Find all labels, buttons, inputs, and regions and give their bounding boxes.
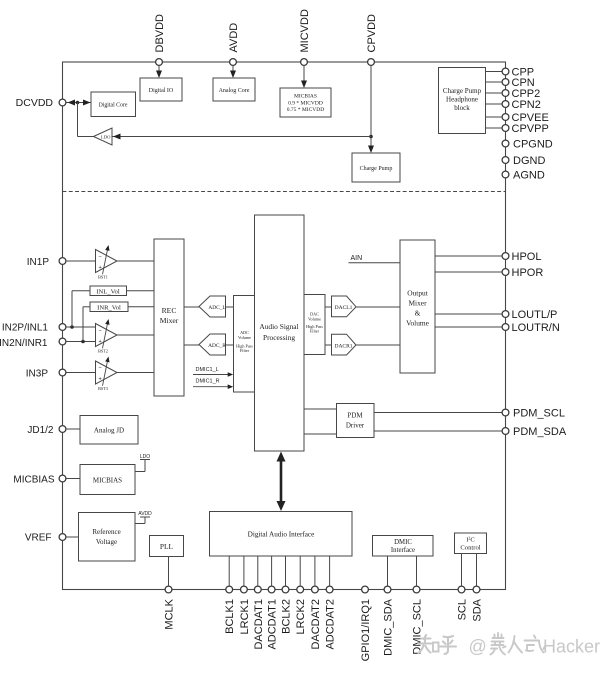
block PDM Driver	[337, 404, 375, 438]
svg-text:LRCK1: LRCK1	[239, 599, 251, 634]
svg-text:Driver: Driver	[346, 422, 365, 430]
svg-text:0.9 * MICVDD: 0.9 * MICVDD	[288, 100, 323, 106]
wire Output Mixer to HPOR	[435, 271, 502, 273]
pin CPVEE	[502, 114, 509, 121]
svg-text:DACR1: DACR1	[334, 343, 352, 349]
svg-text:LOUTR/N: LOUTR/N	[512, 322, 560, 334]
amplifier BST1 boost PGA	[96, 250, 118, 273]
wire REC Mixer to ADC_R	[184, 344, 200, 346]
pin CPP	[502, 68, 509, 75]
svg-text:SCL: SCL	[457, 599, 469, 620]
wire ASP to PDM Driver lower	[304, 433, 337, 435]
svg-text:DACDAT2: DACDAT2	[310, 599, 322, 650]
adc ADC_R	[199, 334, 226, 355]
junction IN2P to INL_Vol	[70, 325, 74, 329]
svg-text:INR_Vol: INR_Vol	[97, 305, 121, 312]
wire DMIC1_L arrow into ADC block	[193, 374, 230, 376]
pin MCLK	[165, 586, 172, 593]
wire IN3P to BST3	[67, 372, 96, 374]
svg-text:DACL1: DACL1	[335, 305, 353, 311]
wire DAC Volume to DACR1	[325, 344, 332, 346]
svg-text:AVDD: AVDD	[228, 23, 240, 53]
wire DAI to BCLK1	[228, 556, 230, 586]
svg-text:I2C: I2C	[466, 535, 475, 544]
svg-text:BCLK2: BCLK2	[281, 599, 293, 634]
svg-text:BST3: BST3	[98, 386, 108, 391]
pin HPOR	[502, 269, 509, 276]
wire Output Mixer to HPOL	[435, 255, 502, 257]
svg-text:IN3P: IN3P	[26, 368, 49, 379]
block MICBIAS	[80, 465, 135, 495]
wire Charge Pump Headphone to CPP	[486, 71, 502, 73]
junction CPVDD-LDO supply	[369, 135, 373, 139]
pin IN2N/INR1	[59, 338, 66, 345]
pin ADCDAT1	[268, 586, 275, 593]
svg-text:HPOL: HPOL	[512, 251, 542, 263]
watermark zhihu text	[419, 635, 457, 654]
svg-text:Filter: Filter	[310, 328, 320, 333]
wire AIN to Output Mixer	[349, 262, 401, 264]
junction IN2N to INR_Vol	[81, 340, 85, 344]
pin BCLK1	[226, 586, 233, 593]
wire DACR1 to Output Mixer	[356, 344, 400, 346]
svg-text:DMIC: DMIC	[394, 539, 412, 546]
svg-text:MICBIAS: MICBIAS	[93, 477, 122, 485]
svg-text:INL_Vol: INL_Vol	[96, 289, 119, 296]
pin CPN2	[502, 101, 509, 108]
wire ASP to PDM Driver upper	[304, 408, 337, 410]
svg-text:Volume: Volume	[406, 319, 430, 328]
block Digital IO	[140, 78, 182, 101]
block INR_Vol	[90, 302, 128, 312]
dac DACR1	[332, 334, 357, 355]
block Charge Pump Headphone block	[439, 68, 486, 134]
svg-text:Digital Audio Interface: Digital Audio Interface	[248, 531, 315, 539]
wire Charge Pump Headphone to CPN	[486, 81, 502, 83]
svg-text:ADCDAT1: ADCDAT1	[267, 599, 279, 650]
pin IN1P	[59, 258, 66, 265]
svg-text:BST2: BST2	[98, 349, 108, 354]
svg-text:LDO: LDO	[140, 454, 150, 460]
svg-text:MICBIAS: MICBIAS	[13, 474, 54, 485]
svg-text:DCVDD: DCVDD	[16, 97, 54, 109]
wire VREF pin to block	[67, 536, 79, 538]
wire ADC_L to ADC Volume	[226, 306, 234, 308]
svg-text:block: block	[454, 104, 470, 112]
svg-text:MCLK: MCLK	[164, 598, 176, 629]
svg-text:JD1/2: JD1/2	[27, 425, 54, 436]
pin PDM_SCL	[502, 409, 509, 416]
wire DMIC Interface to DMIC_SCL	[416, 556, 418, 586]
pin IN2P/INL1	[59, 324, 66, 331]
svg-text:ADCDAT2: ADCDAT2	[325, 599, 337, 650]
pin IN3P	[59, 369, 66, 376]
dashed separator line	[63, 191, 506, 193]
svg-text:Voltage: Voltage	[96, 538, 117, 546]
pin AVDD	[230, 59, 237, 66]
block REC Mixer	[154, 239, 184, 396]
block DAC Volume / High Pass Filter	[304, 295, 325, 355]
wire DBVDD to Digital IO with arrow	[158, 66, 160, 75]
wire Reference Voltage AVDD supply tap	[135, 523, 145, 525]
wire ASP to DAI thick double arrow	[280, 458, 283, 505]
svg-text:ADC_L: ADC_L	[208, 305, 225, 311]
svg-text:Interface: Interface	[391, 547, 415, 554]
svg-text:CPVPP: CPVPP	[512, 123, 549, 135]
wire BST1 to REC Mixer	[117, 260, 154, 262]
wire MICBIAS pin to block	[67, 478, 81, 480]
svg-text:Volume: Volume	[308, 316, 321, 321]
svg-text:DMIC_SCL: DMIC_SCL	[412, 599, 424, 655]
pin DMIC_SDA	[384, 586, 391, 593]
wire DAI to DACDAT2	[314, 556, 316, 586]
pin DCVDD	[59, 99, 66, 106]
svg-text:Control: Control	[460, 545, 480, 552]
wire Charge Pump Headphone to CPVEE	[486, 116, 502, 118]
block I2C Control	[455, 533, 487, 554]
svg-text:−: −	[99, 254, 102, 260]
block DMIC Interface	[373, 536, 434, 557]
svg-text:AGND: AGND	[513, 170, 545, 182]
pin DACDAT2	[312, 586, 319, 593]
block Reference Voltage	[79, 513, 136, 562]
svg-text:DMIC1_R: DMIC1_R	[196, 379, 220, 385]
block Digital Audio Interface	[210, 512, 353, 557]
svg-text:MICBIAS: MICBIAS	[294, 93, 317, 99]
svg-text:−: −	[99, 365, 102, 371]
pin LRCK1	[241, 586, 248, 593]
wire IN1P to BST1	[67, 260, 96, 262]
svg-text:DMIC_SDA: DMIC_SDA	[383, 598, 395, 656]
pin HPOL	[502, 253, 509, 260]
svg-text:Hacker: Hacker	[543, 637, 600, 657]
svg-text:Audio Signal: Audio Signal	[259, 322, 298, 331]
pin LOUTL/P	[502, 311, 509, 318]
svg-text:Filter: Filter	[240, 348, 250, 353]
svg-text:Charge Pump: Charge Pump	[360, 166, 393, 172]
pin MICBIAS	[59, 475, 66, 482]
adc ADC_L	[199, 296, 226, 317]
pin JD1/2	[59, 426, 66, 433]
wire IN2P to BST2 minus input	[67, 326, 96, 328]
wire IN2P up to INL_Vol	[71, 291, 73, 327]
pin LRCK2	[297, 586, 304, 593]
svg-text:LRCK2: LRCK2	[295, 599, 307, 634]
wire ADC_R to ADC Volume	[226, 344, 234, 346]
pin BCLK2	[282, 586, 289, 593]
svg-text:IN2P/INL1: IN2P/INL1	[2, 323, 49, 334]
wire PDM Driver to PDM_SDA	[374, 430, 502, 432]
svg-text:CPN2: CPN2	[512, 99, 541, 111]
wire Charge Pump Headphone to CPP2	[486, 92, 502, 94]
svg-text:Reference: Reference	[92, 528, 120, 536]
wire I2C Control to SCL	[461, 554, 463, 586]
amplifier BST2 boost PGA	[96, 324, 118, 347]
wire Output Mixer to LOUTL/P	[435, 313, 502, 315]
wire MICVDD to MICBIAS regulator with arrow	[303, 66, 305, 85]
dac DACL1	[332, 296, 357, 317]
wire IN2N up to INR_Vol	[82, 307, 84, 342]
pin CPVDD	[368, 59, 375, 66]
wire BST2 to REC Mixer	[117, 334, 154, 336]
pin DBVDD	[156, 59, 163, 66]
svg-text:&: &	[415, 309, 421, 318]
svg-text:CPGND: CPGND	[513, 139, 553, 151]
pin AGND	[502, 171, 509, 178]
svg-text:−: −	[99, 328, 102, 334]
svg-text:DBVDD: DBVDD	[154, 14, 166, 53]
svg-text:SDA: SDA	[472, 598, 484, 621]
block MICBIAS regulator (0.9/0.75 MICVDD)	[280, 88, 331, 117]
pin DGND	[502, 157, 509, 164]
wire MICBIAS LDO supply tap	[135, 471, 145, 473]
svg-text:Output: Output	[407, 289, 428, 298]
wire IN2N to BST2 plus input	[67, 341, 96, 343]
wire DCVDD node down to LDO output	[77, 103, 79, 137]
svg-text:BST1: BST1	[98, 275, 108, 280]
pin VREF	[59, 534, 66, 541]
svg-text:GPIO1/IRQ1: GPIO1/IRQ1	[360, 599, 372, 661]
svg-text:+: +	[99, 339, 102, 345]
pin CPGND	[502, 140, 509, 147]
svg-text:LOUTL/P: LOUTL/P	[512, 309, 558, 321]
block ADC Volume / High Pass Filter	[234, 296, 256, 393]
pin GPIO1/IRQ1	[362, 586, 369, 593]
block PLL	[150, 536, 184, 557]
svg-text:PDM: PDM	[347, 412, 363, 420]
svg-text:Mixer: Mixer	[160, 316, 179, 325]
regulator LDO triangle	[94, 128, 113, 145]
block Analog JD	[80, 416, 138, 445]
wire CPVDD down to Charge Pump with arrow	[370, 66, 372, 150]
wire INR_Vol to REC Mixer	[128, 306, 154, 308]
svg-text:Processing: Processing	[263, 333, 295, 342]
svg-text:MICVDD: MICVDD	[299, 9, 311, 52]
pin CPN	[502, 79, 509, 86]
block Output Mixer and Volume	[400, 240, 435, 373]
wire CPVDD supply into LDO with arrow	[112, 136, 371, 138]
svg-text:+: +	[99, 377, 102, 383]
svg-text:Analog JD: Analog JD	[94, 427, 124, 435]
svg-text:IN1P: IN1P	[27, 257, 50, 268]
svg-text:ADC_R: ADC_R	[208, 343, 226, 349]
wire BST3 to REC Mixer	[117, 372, 154, 374]
svg-text:Headphone: Headphone	[446, 96, 478, 104]
svg-text:IN2N/INR1: IN2N/INR1	[0, 338, 48, 349]
svg-text:Mixer: Mixer	[408, 299, 427, 308]
wire DAI to ADCDAT1	[271, 556, 273, 586]
svg-text:Digital IO: Digital IO	[149, 88, 174, 94]
svg-text:REC: REC	[162, 306, 177, 315]
wire AVDD to Analog Core with arrow	[232, 66, 234, 75]
wire DAI to LRCK1	[243, 556, 245, 586]
svg-text:Charge Pump: Charge Pump	[443, 87, 482, 95]
wire Charge Pump Headphone to CPN2	[486, 103, 502, 105]
svg-text:VREF: VREF	[25, 533, 52, 544]
svg-text:BCLK1: BCLK1	[224, 599, 236, 634]
block Digital Core	[91, 92, 136, 117]
block Analog Core	[213, 78, 255, 101]
wire Output Mixer to LOUTR/N	[435, 326, 502, 328]
wire DMIC1_R arrow into ADC block	[193, 386, 230, 388]
junction DCVDD node	[76, 101, 80, 105]
svg-text:@: @	[469, 637, 487, 657]
svg-text:HPOR: HPOR	[512, 267, 544, 279]
wire DAI to LRCK2	[299, 556, 301, 586]
pin DMIC_SCL	[413, 586, 420, 593]
wire PLL to MCLK	[168, 557, 170, 586]
block Audio Signal Processing	[255, 215, 305, 451]
block Charge Pump	[352, 153, 400, 182]
svg-text:DACDAT1: DACDAT1	[253, 599, 265, 650]
svg-text:PLL: PLL	[160, 542, 174, 551]
pin MICVDD	[301, 59, 308, 66]
svg-text:AVDD: AVDD	[138, 511, 152, 517]
wire DAI to ADCDAT2	[329, 556, 331, 586]
wire DACL1 to Output Mixer	[356, 306, 400, 308]
chip outer boundary box	[63, 62, 506, 590]
wire DAC Volume to DACL1	[325, 306, 332, 308]
svg-text:+: +	[99, 265, 102, 271]
svg-text:AIN: AIN	[351, 255, 363, 262]
svg-text:LDO: LDO	[101, 135, 111, 140]
wire REC Mixer to ADC_L	[184, 306, 200, 308]
amplifier BST3 boost PGA	[96, 361, 118, 384]
svg-text:PDM_SCL: PDM_SCL	[513, 408, 565, 420]
pin CPP2	[502, 90, 509, 97]
wire PDM Driver to PDM_SCL	[374, 412, 502, 414]
wire INL_Vol to REC Mixer	[127, 290, 155, 292]
svg-text:CPVDD: CPVDD	[366, 14, 378, 53]
pin PDM_SDA	[502, 428, 509, 435]
pin CPVPP	[502, 125, 509, 132]
svg-text:DGND: DGND	[513, 155, 545, 167]
svg-text:0.75 * MICVDD: 0.75 * MICVDD	[287, 107, 324, 113]
pin DACDAT1	[254, 586, 261, 593]
pin SDA	[473, 586, 480, 593]
pin ADCDAT2	[326, 586, 333, 593]
pin LOUTR/N	[502, 324, 509, 331]
wire DAI to BCLK2	[285, 556, 287, 586]
wire Charge Pump Headphone to CPVPP	[486, 127, 502, 129]
svg-text:Analog Core: Analog Core	[219, 88, 250, 94]
pin SCL	[458, 586, 465, 593]
svg-text:PDM_SDA: PDM_SDA	[513, 426, 567, 438]
wire JD1/2 to Analog JD	[67, 428, 81, 430]
svg-text:DMIC1_L: DMIC1_L	[196, 367, 219, 373]
svg-text:Digital Core: Digital Core	[99, 103, 128, 109]
wire DCVDD to Digital Core, double-headed	[67, 102, 92, 104]
wire DAI to DACDAT1	[257, 556, 259, 586]
block INL_Vol	[90, 286, 127, 296]
wire DMIC Interface to DMIC_SDA	[387, 556, 389, 586]
svg-text:Volume: Volume	[238, 335, 251, 340]
wire I2C Control to SDA	[476, 554, 478, 586]
